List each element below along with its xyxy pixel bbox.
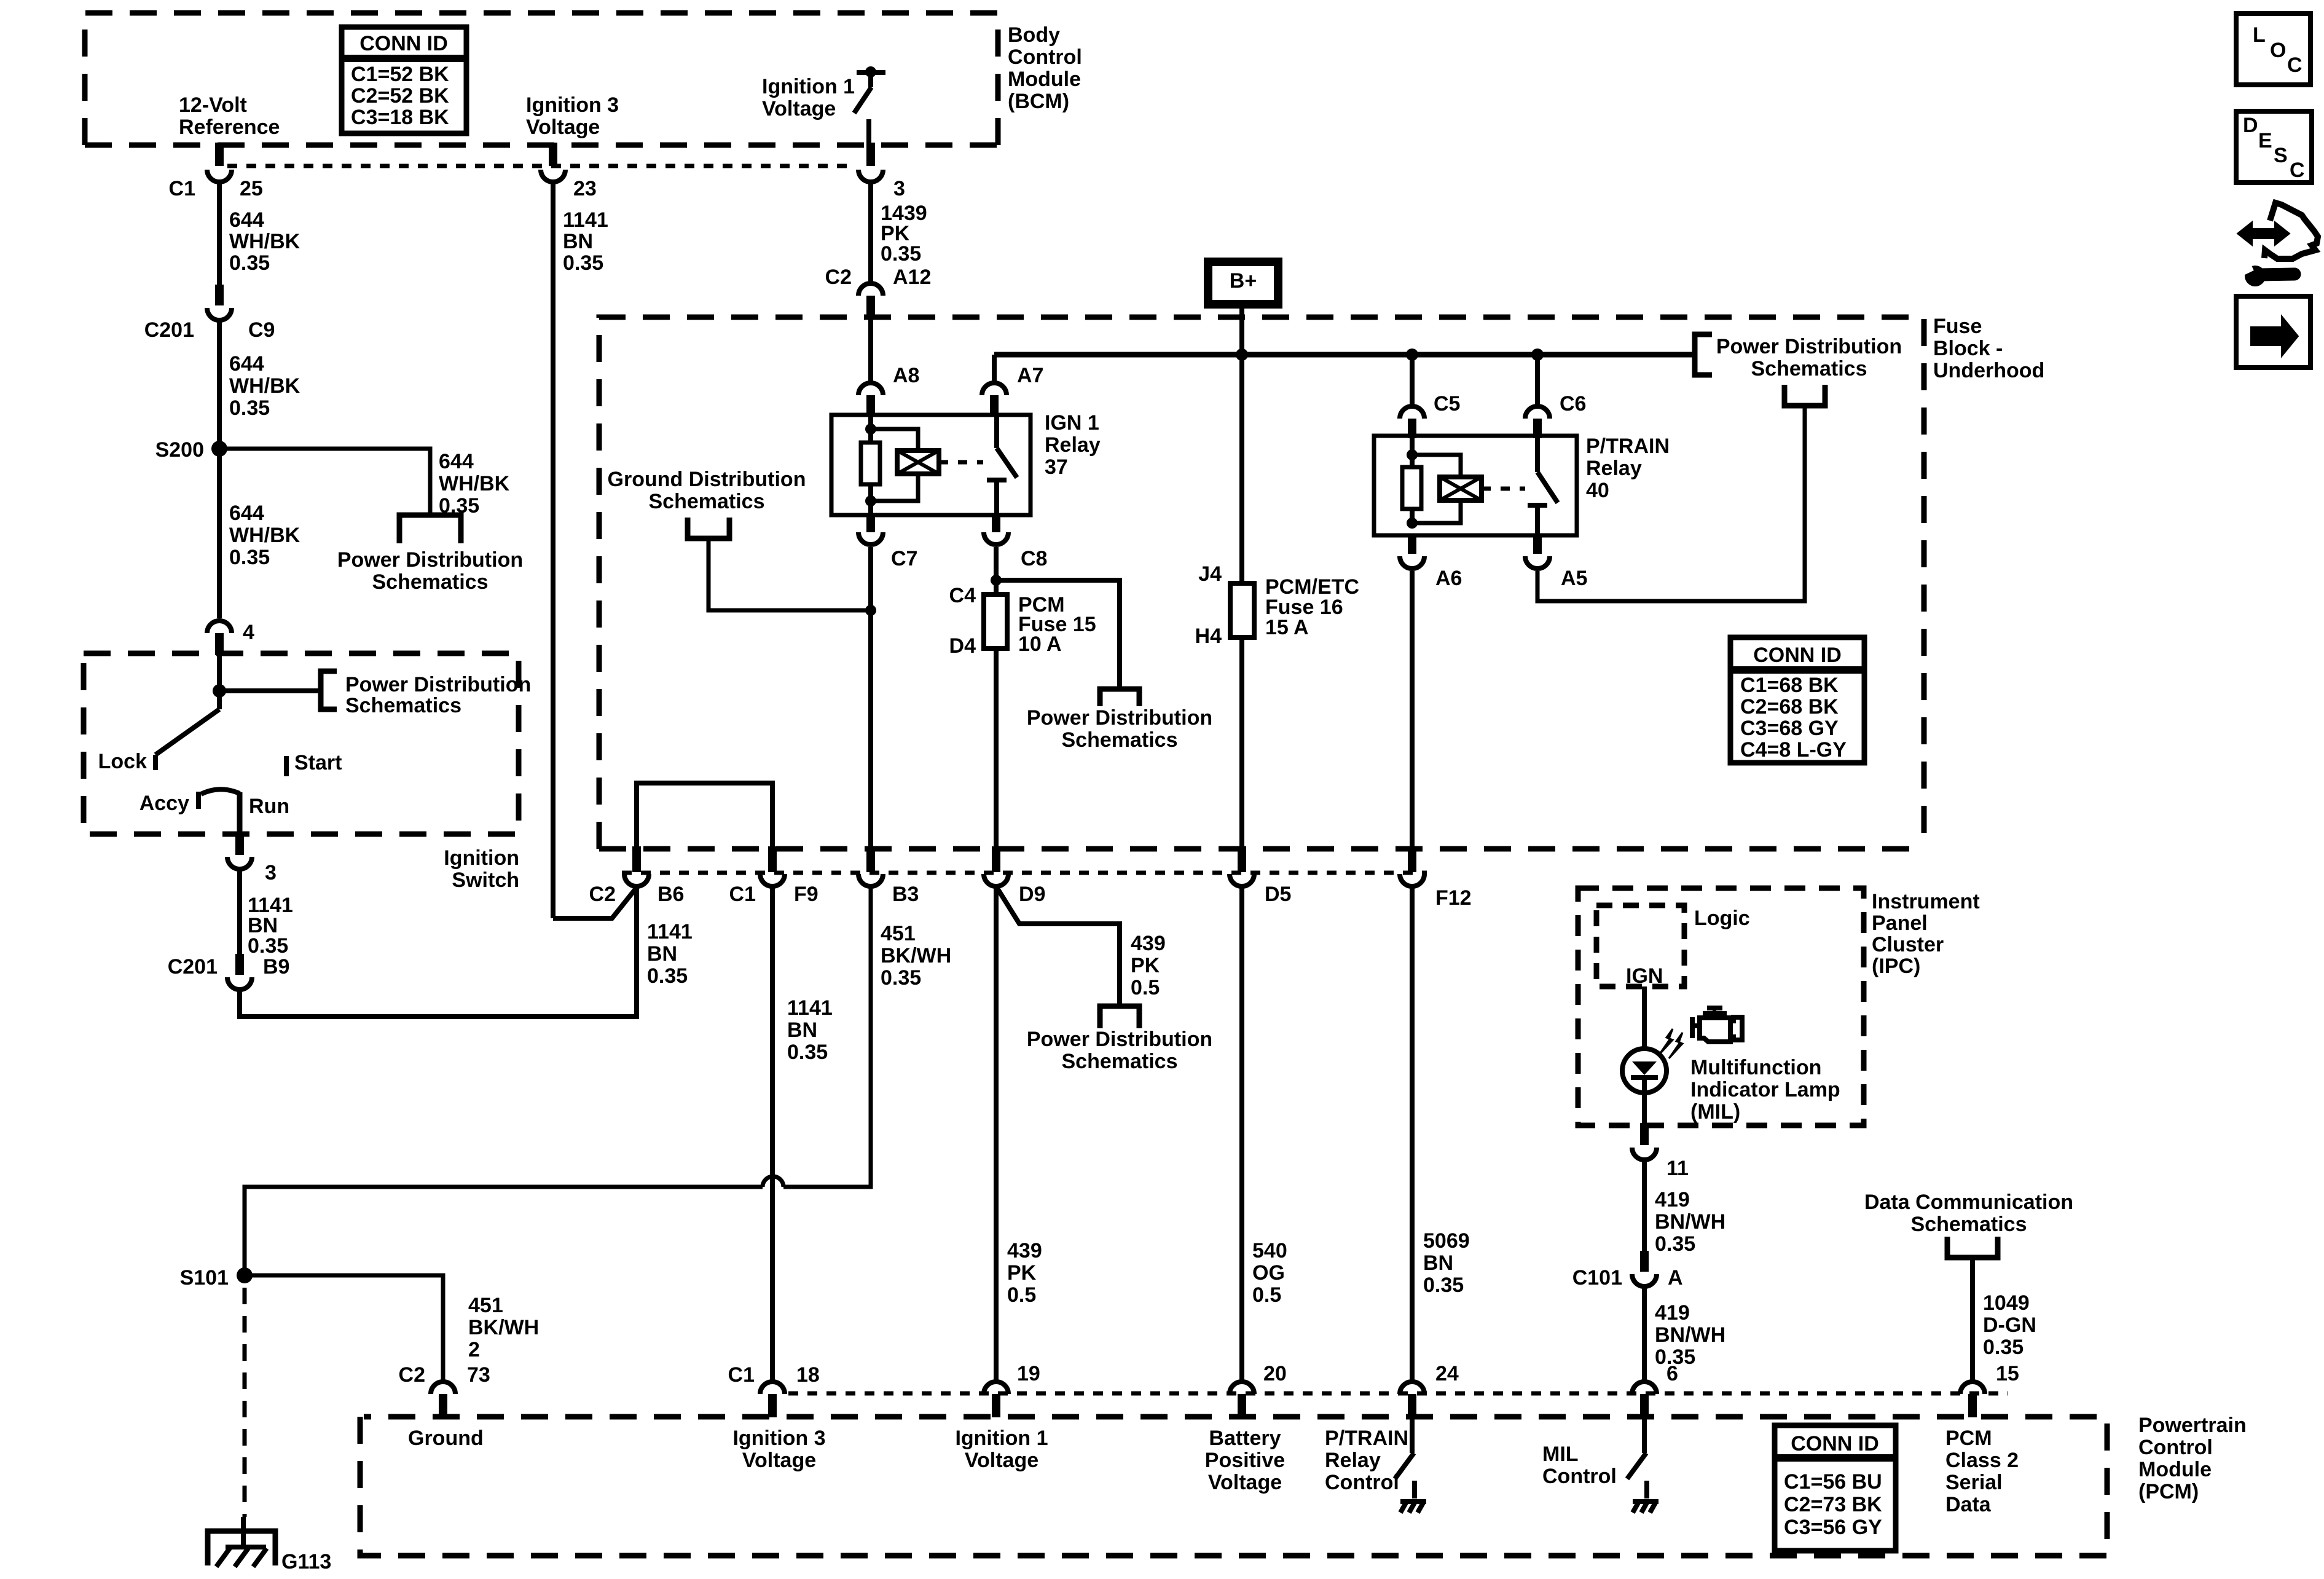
- Instrument Panel Cluster dashed box: [1578, 888, 1864, 1125]
- svg-text:3: 3: [893, 177, 905, 200]
- svg-text:C1: C1: [169, 177, 195, 200]
- svg-text:BN: BN: [787, 1018, 817, 1042]
- svg-text:Body: Body: [1008, 23, 1060, 47]
- svg-text:WH/BK: WH/BK: [439, 472, 510, 495]
- relay coil bottom pin: [868, 501, 873, 514]
- svg-text:BN/WH: BN/WH: [1655, 1210, 1725, 1234]
- C5 bus junction: [1406, 348, 1418, 361]
- diagnostic icon wrench: [2245, 266, 2266, 286]
- svg-text:Data Communication: Data Communication: [1864, 1191, 2073, 1214]
- svg-text:0.35: 0.35: [787, 1041, 828, 1064]
- ptrain coil top branch: [1412, 455, 1461, 477]
- PCM fuse 15: [984, 594, 1007, 648]
- ignition switch feed wire: [217, 655, 222, 691]
- svg-text:CONN ID: CONN ID: [1753, 644, 1842, 667]
- wire B3 to S101 route: [783, 886, 871, 1187]
- wire IGN to MIL lamp: [1642, 986, 1647, 1049]
- svg-text:0.35: 0.35: [229, 396, 270, 420]
- ptrain control switch: [1410, 1417, 1415, 1453]
- P/TRAIN relay box: [1374, 436, 1577, 535]
- wire fuse15 to D9: [994, 647, 999, 846]
- svg-text:Multifunction: Multifunction: [1690, 1056, 1821, 1079]
- Body Control Module (BCM) dashed box: [85, 13, 998, 145]
- PCM ETC fuse 16: [1230, 583, 1254, 637]
- MIL control switch: [1642, 1417, 1647, 1453]
- svg-text:Ignition: Ignition: [444, 846, 519, 870]
- svg-text:0.35: 0.35: [563, 251, 603, 275]
- svg-text:644: 644: [439, 450, 474, 473]
- switch wiper to Lock: [217, 691, 222, 709]
- connector C201 C9: [215, 285, 224, 305]
- connector D9: [992, 846, 1000, 872]
- svg-text:WH/BK: WH/BK: [229, 230, 300, 253]
- connector B3: [866, 846, 875, 872]
- svg-text:C1=52 BK: C1=52 BK: [351, 63, 449, 86]
- connector A6: [1408, 535, 1416, 554]
- PCM pin 20 connector: [1230, 1382, 1254, 1394]
- IGN 1 relay box: [831, 415, 1030, 515]
- svg-text:20: 20: [1263, 1362, 1287, 1385]
- svg-text:D-GN: D-GN: [1983, 1313, 2036, 1337]
- connector C6: [1525, 406, 1550, 419]
- svg-text:S101: S101: [180, 1266, 229, 1290]
- svg-text:A8: A8: [893, 364, 919, 387]
- power distribution ref bracket (S200): [399, 515, 461, 543]
- ground distribution bracket: [688, 518, 729, 538]
- svg-text:1141: 1141: [647, 920, 693, 943]
- svg-text:Lock: Lock: [98, 750, 147, 773]
- svg-text:PK: PK: [1131, 954, 1160, 977]
- svg-text:73: 73: [467, 1363, 490, 1387]
- DESC icon box: [2236, 111, 2312, 183]
- power distribution ref bracket (D9): [1100, 1006, 1139, 1028]
- svg-text:Module: Module: [2138, 1458, 2212, 1481]
- svg-text:Panel: Panel: [1872, 912, 1928, 935]
- BCM connector dotted row: [227, 164, 855, 168]
- wire 644 lower: [217, 449, 222, 618]
- svg-text:B9: B9: [263, 955, 289, 979]
- svg-text:CONN ID: CONN ID: [1791, 1432, 1879, 1455]
- svg-text:BN: BN: [647, 942, 677, 966]
- svg-text:D: D: [2243, 114, 2258, 137]
- wire F9 to PCM 18: [770, 886, 775, 1382]
- ptrain coil top junction: [1410, 437, 1415, 455]
- BCM CONN ID box: [342, 27, 466, 133]
- svg-text:Cluster: Cluster: [1872, 933, 1944, 956]
- relay switch lower contact: [987, 478, 1007, 482]
- svg-text:C: C: [2287, 53, 2302, 77]
- wire 419 lower: [1642, 1286, 1647, 1382]
- wire A12 to A8: [868, 316, 873, 383]
- svg-text:644: 644: [229, 208, 264, 232]
- ptrain resistor: [1410, 455, 1415, 467]
- svg-text:D9: D9: [1019, 883, 1045, 906]
- svg-text:1049: 1049: [1983, 1291, 2030, 1315]
- svg-text:Accy: Accy: [139, 792, 189, 815]
- svg-text:Schematics: Schematics: [1062, 728, 1178, 752]
- svg-text:25: 25: [240, 177, 263, 200]
- splice S101: [237, 1267, 253, 1283]
- svg-text:H4: H4: [1195, 624, 1222, 648]
- wire 1141 from ignition switch: [237, 869, 242, 954]
- connector A8: [858, 383, 883, 395]
- svg-text:4: 4: [243, 621, 254, 644]
- svg-text:C6: C6: [1560, 392, 1586, 415]
- wire 644 upper: [217, 182, 222, 285]
- svg-text:CONN ID: CONN ID: [359, 32, 448, 55]
- PCM pin 19 connector: [984, 1382, 1008, 1394]
- svg-text:C3=68 GY: C3=68 GY: [1740, 717, 1839, 740]
- power distribution ref bracket (bus right): [1695, 334, 1712, 375]
- svg-text:6: 6: [1666, 1362, 1678, 1385]
- connector C5: [1400, 406, 1424, 419]
- PCM pin 24 connector: [1400, 1382, 1424, 1394]
- Fuse Block bottom dashed edge: [599, 846, 1924, 852]
- svg-text:439: 439: [1007, 1239, 1042, 1262]
- relay resistor: [868, 429, 873, 443]
- MIL control ground: [1633, 1499, 1659, 1504]
- svg-text:S: S: [2274, 144, 2288, 167]
- svg-text:439: 439: [1131, 932, 1166, 955]
- svg-text:Powertrain: Powertrain: [2138, 1414, 2247, 1437]
- ptrain switch lower contact: [1528, 503, 1547, 508]
- wire PDS to A5 route: [1537, 406, 1805, 601]
- svg-text:Ignition 1: Ignition 1: [762, 75, 855, 98]
- svg-text:18: 18: [796, 1363, 820, 1387]
- Run wire: [237, 792, 243, 834]
- svg-text:1141: 1141: [563, 208, 608, 232]
- svg-text:Power Distribution: Power Distribution: [1027, 1028, 1212, 1051]
- GDS junction dot: [865, 605, 876, 616]
- svg-text:C9: C9: [248, 318, 275, 342]
- svg-text:Ground Distribution: Ground Distribution: [608, 468, 806, 491]
- wire 1439 from BCM pin 3: [868, 182, 873, 282]
- LOC icon box: [2236, 14, 2310, 85]
- svg-text:0.35: 0.35: [248, 934, 288, 958]
- svg-text:C7: C7: [891, 547, 917, 570]
- svg-text:P/TRAIN: P/TRAIN: [1325, 1427, 1408, 1450]
- forward arrow: [2251, 316, 2298, 356]
- svg-text:J4: J4: [1198, 562, 1222, 586]
- svg-text:A6: A6: [1435, 567, 1462, 590]
- MIL lamp LED: [1622, 1049, 1666, 1093]
- svg-text:Run: Run: [249, 795, 289, 818]
- svg-text:24: 24: [1435, 1362, 1459, 1385]
- connector B6: [632, 846, 641, 872]
- svg-text:F9: F9: [794, 883, 819, 906]
- svg-text:MIL: MIL: [1542, 1443, 1579, 1466]
- svg-text:0.5: 0.5: [1252, 1283, 1281, 1307]
- IPC Logic dashed box: [1596, 905, 1684, 986]
- svg-text:0.35: 0.35: [881, 242, 921, 266]
- S101 branch to PCM ground: [245, 1275, 443, 1382]
- svg-text:Ignition 1: Ignition 1: [955, 1427, 1048, 1450]
- svg-text:Serial: Serial: [1945, 1471, 2003, 1494]
- engine icon: [1707, 1006, 1722, 1010]
- svg-text:IGN 1: IGN 1: [1045, 411, 1099, 435]
- svg-text:Ground: Ground: [408, 1427, 484, 1450]
- svg-text:BN/WH: BN/WH: [1655, 1323, 1725, 1347]
- svg-text:P/TRAIN: P/TRAIN: [1586, 435, 1670, 458]
- svg-text:0.5: 0.5: [1007, 1283, 1036, 1307]
- svg-text:Voltage: Voltage: [1208, 1471, 1282, 1494]
- svg-text:Fuse: Fuse: [1933, 315, 1982, 338]
- svg-text:Power Distribution: Power Distribution: [1027, 706, 1212, 730]
- connector C2 A12: [858, 283, 883, 296]
- svg-text:C8: C8: [1021, 547, 1047, 570]
- svg-text:451: 451: [881, 922, 916, 945]
- svg-text:Positive: Positive: [1205, 1449, 1285, 1472]
- svg-text:B6: B6: [658, 883, 684, 906]
- svg-text:C2: C2: [589, 883, 616, 906]
- connector D5: [1238, 846, 1246, 872]
- svg-text:10 A: 10 A: [1018, 632, 1062, 656]
- svg-text:A12: A12: [893, 266, 931, 289]
- wire B6 staple to F9: [637, 783, 772, 846]
- PCM CONN ID box: [1775, 1425, 1896, 1551]
- svg-text:15: 15: [1996, 1362, 2019, 1385]
- svg-text:Control: Control: [1542, 1465, 1617, 1488]
- svg-text:40: 40: [1586, 479, 1609, 502]
- BCM ignition 1 switch: [857, 70, 885, 75]
- svg-text:C2=73 BK: C2=73 BK: [1784, 1493, 1882, 1516]
- svg-text:Control: Control: [2138, 1436, 2213, 1459]
- relay switch blade: [997, 448, 1017, 478]
- wire A6 to F12: [1410, 571, 1415, 846]
- PCM pin 15 connector: [1960, 1382, 1985, 1394]
- svg-text:Power Distribution: Power Distribution: [345, 673, 531, 696]
- svg-text:C4=8 L-GY: C4=8 L-GY: [1740, 738, 1847, 762]
- svg-text:0.35: 0.35: [229, 251, 270, 275]
- wire D9 to PCM 19: [994, 886, 999, 1382]
- svg-text:D5: D5: [1265, 883, 1291, 906]
- svg-text:Reference: Reference: [179, 116, 280, 139]
- svg-text:Switch: Switch: [452, 868, 519, 892]
- Lock contact: [153, 755, 158, 770]
- svg-text:BN: BN: [1423, 1251, 1453, 1275]
- svg-text:37: 37: [1045, 455, 1068, 479]
- svg-text:F12: F12: [1435, 886, 1472, 910]
- svg-text:(BCM): (BCM): [1008, 90, 1069, 113]
- svg-text:C: C: [2290, 159, 2305, 182]
- wire C8 to fuse: [994, 547, 999, 594]
- svg-text:Indicator Lamp: Indicator Lamp: [1690, 1078, 1840, 1101]
- ignition switch junction: [213, 684, 226, 698]
- svg-text:BN: BN: [563, 230, 593, 253]
- svg-text:C1=56 BU: C1=56 BU: [1784, 1470, 1882, 1494]
- wire D9 branch to PDS: [996, 886, 1120, 1006]
- svg-text:Data: Data: [1945, 1493, 1992, 1516]
- IPC pin 11 connector: [1640, 1123, 1649, 1145]
- svg-text:Ignition 3: Ignition 3: [732, 1427, 825, 1450]
- diagnostic icon outline: [2264, 203, 2318, 259]
- wire 1141 from BCM pin 23: [551, 182, 555, 918]
- svg-text:0.35: 0.35: [229, 546, 270, 569]
- PCM pin 73 connector C2: [431, 1382, 455, 1394]
- svg-text:A7: A7: [1017, 364, 1043, 387]
- svg-text:S200: S200: [155, 438, 204, 462]
- wire F12 to PCM 24: [1410, 886, 1415, 1382]
- BCM bottom dashed edge: [85, 143, 998, 148]
- svg-text:1141: 1141: [787, 996, 833, 1020]
- power distribution ref bracket (fuse15): [1100, 689, 1139, 706]
- svg-text:Schematics: Schematics: [372, 570, 489, 594]
- svg-text:C101: C101: [1572, 1266, 1622, 1290]
- svg-text:Instrument: Instrument: [1872, 890, 1980, 913]
- bus corner to A7: [992, 355, 997, 383]
- svg-text:23: 23: [573, 177, 597, 200]
- B+ bus junction: [1236, 348, 1248, 361]
- svg-text:C1=68 BK: C1=68 BK: [1740, 674, 1839, 697]
- svg-text:Relay: Relay: [1586, 457, 1642, 480]
- power distribution ref bracket (ignition switch): [321, 671, 337, 709]
- svg-text:PK: PK: [1007, 1261, 1037, 1285]
- connector C201 B9: [235, 954, 244, 975]
- svg-text:Schematics: Schematics: [649, 490, 765, 513]
- svg-text:0.35: 0.35: [881, 966, 921, 990]
- svg-text:C5: C5: [1434, 392, 1460, 415]
- svg-text:540: 540: [1252, 1239, 1287, 1262]
- BCM pin 23 connector: [549, 143, 557, 166]
- svg-text:15 A: 15 A: [1265, 616, 1309, 639]
- relay switch upper contact: [994, 416, 999, 448]
- svg-text:IGN: IGN: [1626, 964, 1663, 988]
- svg-text:Module: Module: [1008, 68, 1081, 91]
- svg-text:WH/BK: WH/BK: [229, 374, 300, 398]
- svg-text:OG: OG: [1252, 1261, 1285, 1285]
- Ignition Switch dashed box: [84, 653, 519, 834]
- wire GDS to C7 wire: [709, 538, 871, 610]
- svg-text:C201: C201: [168, 955, 218, 979]
- svg-text:C1: C1: [728, 1363, 755, 1387]
- PDS lower bracket (to A5): [1784, 385, 1825, 406]
- svg-text:G113: G113: [281, 1550, 331, 1573]
- connector A7: [982, 383, 1007, 395]
- svg-text:L: L: [2253, 23, 2266, 47]
- svg-text:C3=18 BK: C3=18 BK: [351, 106, 449, 129]
- svg-text:Battery: Battery: [1209, 1427, 1281, 1450]
- ptrain switch blade: [1537, 472, 1558, 503]
- S101 dashed wire to ground: [243, 1288, 247, 1517]
- svg-text:C4: C4: [949, 584, 976, 607]
- svg-text:PCM: PCM: [1945, 1427, 1992, 1450]
- connector C7: [866, 515, 875, 532]
- svg-text:Control: Control: [1325, 1471, 1399, 1494]
- svg-text:2: 2: [468, 1338, 480, 1361]
- ignition switch pin 4 connector: [207, 621, 232, 633]
- svg-text:0.35: 0.35: [1423, 1274, 1464, 1297]
- Accy-Run wiper curve: [201, 789, 240, 794]
- svg-text:C2=68 BK: C2=68 BK: [1740, 695, 1839, 719]
- svg-text:0.35: 0.35: [647, 964, 688, 988]
- relay winding link dashes: [939, 460, 983, 465]
- wire 644 mid: [217, 320, 222, 449]
- ptrain switch upper contact: [1535, 437, 1540, 472]
- connector F12: [1408, 846, 1416, 872]
- PCM pin 6 connector: [1632, 1382, 1657, 1394]
- svg-text:Logic: Logic: [1694, 907, 1750, 930]
- svg-text:3: 3: [265, 861, 277, 884]
- PCM pin 18 connector C1: [760, 1382, 785, 1394]
- svg-text:0.5: 0.5: [1131, 976, 1160, 999]
- connector A5: [1533, 535, 1542, 554]
- svg-text:12-Volt: 12-Volt: [179, 93, 247, 117]
- C6 bus junction: [1531, 348, 1544, 361]
- svg-text:B+: B+: [1230, 269, 1257, 293]
- svg-text:419: 419: [1655, 1188, 1690, 1211]
- relay coil bottom junction: [865, 495, 876, 506]
- svg-text:C201: C201: [144, 318, 194, 342]
- svg-text:O: O: [2270, 39, 2286, 62]
- wire C7 to B3: [868, 547, 873, 846]
- ptrain coil bottom junction: [1407, 518, 1418, 529]
- forward arrow icon box: [2236, 296, 2310, 368]
- diagnostic icon arrows: [2237, 222, 2290, 245]
- wire B9 to B6 route: [240, 886, 637, 1017]
- BCM pin 25 connector C1: [215, 143, 224, 166]
- svg-text:A: A: [1668, 1266, 1683, 1290]
- ptrain winding: [1440, 477, 1482, 500]
- B+ wire drop: [1239, 304, 1244, 583]
- svg-text:19: 19: [1017, 1362, 1040, 1385]
- wire D5 to PCM 20: [1239, 886, 1244, 1382]
- svg-text:(MIL): (MIL): [1690, 1100, 1740, 1124]
- svg-text:Voltage: Voltage: [526, 116, 600, 139]
- relay coil top branch: [871, 429, 918, 451]
- svg-text:B3: B3: [892, 883, 919, 906]
- svg-text:Class 2: Class 2: [1945, 1449, 2019, 1472]
- svg-text:Schematics: Schematics: [1911, 1213, 2027, 1236]
- svg-text:BK/WH: BK/WH: [468, 1316, 539, 1339]
- svg-text:0.35: 0.35: [1655, 1232, 1695, 1256]
- connector C101: [1640, 1251, 1649, 1272]
- svg-text:Schematics: Schematics: [1062, 1050, 1178, 1073]
- connector C8: [992, 515, 1000, 532]
- data communication bracket: [1947, 1237, 1998, 1258]
- Fuse Block dashed box: [599, 317, 1924, 849]
- svg-text:C1: C1: [729, 883, 756, 906]
- connector C1 F9: [768, 846, 777, 872]
- svg-text:644: 644: [229, 352, 264, 376]
- svg-text:Schematics: Schematics: [1751, 357, 1867, 380]
- wire 1049 to pin 15: [1970, 1258, 1975, 1382]
- Fuse Block CONN ID box: [1730, 637, 1864, 763]
- wire jog to B6: [553, 888, 637, 918]
- svg-text:419: 419: [1655, 1301, 1690, 1325]
- Powertrain Control Module dashed box: [360, 1417, 2107, 1556]
- wire to PDS bracket: [219, 688, 321, 693]
- ptrain winding link dashes: [1482, 487, 1525, 491]
- svg-text:451: 451: [468, 1294, 503, 1317]
- svg-text:E: E: [2258, 129, 2272, 152]
- svg-text:(PCM): (PCM): [2138, 1480, 2199, 1503]
- svg-text:Control: Control: [1008, 45, 1082, 69]
- wire 419 upper: [1642, 1160, 1647, 1251]
- svg-text:BK/WH: BK/WH: [881, 944, 951, 967]
- svg-text:644: 644: [229, 502, 264, 525]
- wire MIL lamp to pin 11: [1642, 1093, 1647, 1125]
- relay coil top junction: [868, 416, 873, 429]
- svg-text:Ignition 3: Ignition 3: [526, 93, 619, 117]
- svg-text:D4: D4: [949, 634, 976, 658]
- C8 branch junction: [991, 575, 1002, 586]
- svg-text:11: 11: [1666, 1157, 1689, 1180]
- svg-text:Relay: Relay: [1325, 1449, 1381, 1472]
- svg-text:Schematics: Schematics: [345, 694, 461, 717]
- relay winding: [897, 451, 939, 474]
- ignition switch pin 3 connector: [235, 832, 244, 855]
- Accy contact: [196, 792, 201, 809]
